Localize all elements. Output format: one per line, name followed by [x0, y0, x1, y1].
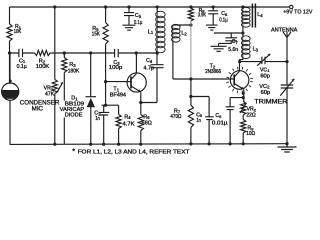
resistor R1 10K	[7, 24, 12, 41]
svg-text:FOR L1, L2, L3 AND L4, REFER T: FOR L1, L2, L3 AND L4, REFER TEXT	[78, 150, 190, 156]
svg-text:4: 4	[260, 13, 263, 18]
wire: VCC branch down to VR1	[53, 5, 56, 8]
svg-text:60p: 60p	[260, 74, 270, 80]
wire: +9V top supply rail	[10, 6, 290, 8]
wire: left column from rail to R1	[9, 7, 11, 24]
resistor R2 100K	[35, 50, 51, 55]
capacitor C4 4.7p feedback	[141, 53, 164, 103]
svg-text:1: 1	[151, 30, 154, 35]
node: antenna/VC1 junction	[285, 60, 288, 63]
wire: R1 bottom to mic junction	[9, 41, 11, 83]
trimmer capacitor VC1 60p	[262, 57, 287, 65]
inductor L4 output coil with core	[241, 5, 244, 8]
svg-text:4.7K: 4.7K	[123, 122, 135, 128]
svg-text:180K: 180K	[68, 68, 80, 74]
wire: R2 to C3 audio line	[50, 52, 114, 54]
svg-text:ANTENNA: ANTENNA	[271, 27, 297, 33]
svg-text:MIC: MIC	[32, 105, 44, 112]
potentiometer VR1 47K	[52, 80, 57, 94]
resistor R7 470ohm	[188, 105, 193, 128]
svg-text:TRIMMER: TRIMMER	[254, 100, 288, 106]
wire: R8 bottom through L2 tap (light section)	[190, 21, 192, 79]
svg-text:7: 7	[236, 40, 239, 45]
svg-text:100p: 100p	[109, 65, 123, 71]
wire: T2 emitter node	[243, 90, 245, 102]
capacitor C3 100p	[115, 49, 158, 57]
preset VR2 22ohm	[241, 102, 246, 116]
capacitor C6 0.01u emitter bypass	[242, 96, 245, 99]
ground for C7	[211, 46, 227, 51]
wire: C2/R4 node line	[102, 104, 119, 106]
inductor L1 tank coil	[156, 5, 159, 8]
svg-text:4: 4	[150, 59, 153, 64]
svg-text:1n: 1n	[95, 116, 100, 122]
capacitor C7 5.6n	[214, 32, 243, 34]
resistor R4 4.7K	[118, 105, 120, 114]
node: T2 collector / output node	[238, 60, 241, 63]
svg-text:1: 1	[267, 68, 270, 73]
wire: antenna stem	[286, 38, 288, 62]
wire: L3 bottom to T2 collector node	[240, 58, 243, 62]
resistor R9 10ohm	[241, 120, 246, 134]
wire: L2 bottom to T2 base line	[173, 42, 234, 80]
svg-text:4: 4	[128, 115, 131, 120]
svg-text:22Ω: 22Ω	[246, 113, 256, 119]
capacitor C8 0.1u supply bypass	[212, 5, 215, 8]
svg-text:470Ω: 470Ω	[170, 114, 181, 120]
capacitor C5b 1n across R7	[191, 97, 214, 145]
wire: R5 branch from rail	[104, 5, 107, 8]
svg-text:0.1µ: 0.1µ	[219, 18, 228, 24]
ground for C5	[123, 25, 136, 30]
svg-text:0.1µ: 0.1µ	[134, 20, 142, 26]
svg-text:+9V TO 12V: +9V TO 12V	[283, 10, 312, 16]
node: D1 cathode tap on audio line	[89, 51, 92, 54]
svg-text:0.1µ: 0.1µ	[17, 64, 27, 70]
wire: mic bottom lead to ground rail	[9, 100, 11, 144]
wire: base node down to R7	[190, 79, 192, 105]
svg-text:47K: 47K	[45, 92, 55, 98]
node: rail to earth junction	[285, 142, 288, 145]
resistor R6 68ohm emitter	[140, 103, 142, 115]
transistor T2 2N3866 with radial dashes	[230, 71, 249, 90]
node: L1/C4 junction	[156, 51, 159, 54]
svg-text:*: *	[72, 149, 75, 156]
svg-text:6: 6	[219, 114, 222, 119]
wire: audio line down to varicap D1	[90, 53, 92, 97]
svg-text:2N3866: 2N3866	[205, 69, 221, 75]
svg-text:5.6n: 5.6n	[228, 47, 238, 53]
capacitor C1 0.1u coupling	[10, 49, 35, 58]
varactor diode D1 BB109	[86, 96, 97, 98]
wire: L4 to L3 junction	[242, 27, 244, 37]
svg-text:5: 5	[139, 14, 142, 19]
node: T1 base junction	[104, 80, 107, 83]
node: R3 top tap on audio line	[63, 51, 66, 54]
wire: ground rail at bottom	[10, 143, 288, 146]
svg-text:15K: 15K	[92, 31, 101, 37]
svg-text:10Ω: 10Ω	[246, 131, 255, 137]
node: +9V terminal circle	[290, 5, 293, 8]
svg-text:VC: VC	[259, 84, 267, 90]
wire: VR2 to R9	[242, 115, 244, 120]
svg-text:DIODE: DIODE	[65, 113, 83, 119]
capacitor C2 1n	[99, 105, 110, 144]
wire: R3 bottom down to ground rail (interrupted by label)	[63, 73, 65, 145]
svg-text:2: 2	[184, 31, 187, 36]
wire: VR1 bottom to ground rail	[54, 94, 56, 145]
svg-text:68Ω: 68Ω	[142, 120, 152, 126]
svg-text:2: 2	[267, 85, 270, 90]
wire: mic top lead	[9, 53, 11, 83]
inductor L2 coupling coil	[172, 24, 181, 42]
svg-text:10K: 10K	[14, 29, 22, 35]
svg-text:3.9K: 3.9K	[198, 12, 207, 18]
transistor T1 BF494	[127, 73, 146, 92]
wire: base lead to T1	[106, 81, 131, 83]
svg-text:100K: 100K	[36, 64, 50, 70]
capacitor C5 0.1u bypass at rail	[127, 5, 130, 8]
wire: output node to VC1	[240, 61, 262, 63]
ground for C8	[206, 25, 218, 30]
ground: main earth symbol	[286, 144, 288, 147]
svg-text:60p: 60p	[261, 90, 271, 96]
svg-text:BF494: BF494	[110, 93, 126, 99]
resistor R3 180K	[63, 53, 65, 58]
svg-text:4.7p: 4.7p	[144, 66, 155, 72]
svg-text:0.01µ: 0.01µ	[212, 121, 228, 127]
inductor L3	[242, 36, 251, 59]
svg-text:1n: 1n	[196, 118, 201, 124]
svg-text:3: 3	[256, 47, 259, 52]
wire: R5 bottom crossing audio line to T1 base node	[105, 44, 107, 105]
node: T1 collector tap	[135, 51, 138, 54]
node A: mic/R1/C1 junction	[8, 51, 11, 54]
resistor R5 15K	[103, 23, 108, 45]
trimmer capacitor VC2 60p	[281, 62, 294, 144]
resistor R8 3.9K bias	[189, 5, 192, 8]
wire: T1 emitter to node	[140, 92, 142, 102]
svg-text:8: 8	[225, 12, 228, 17]
